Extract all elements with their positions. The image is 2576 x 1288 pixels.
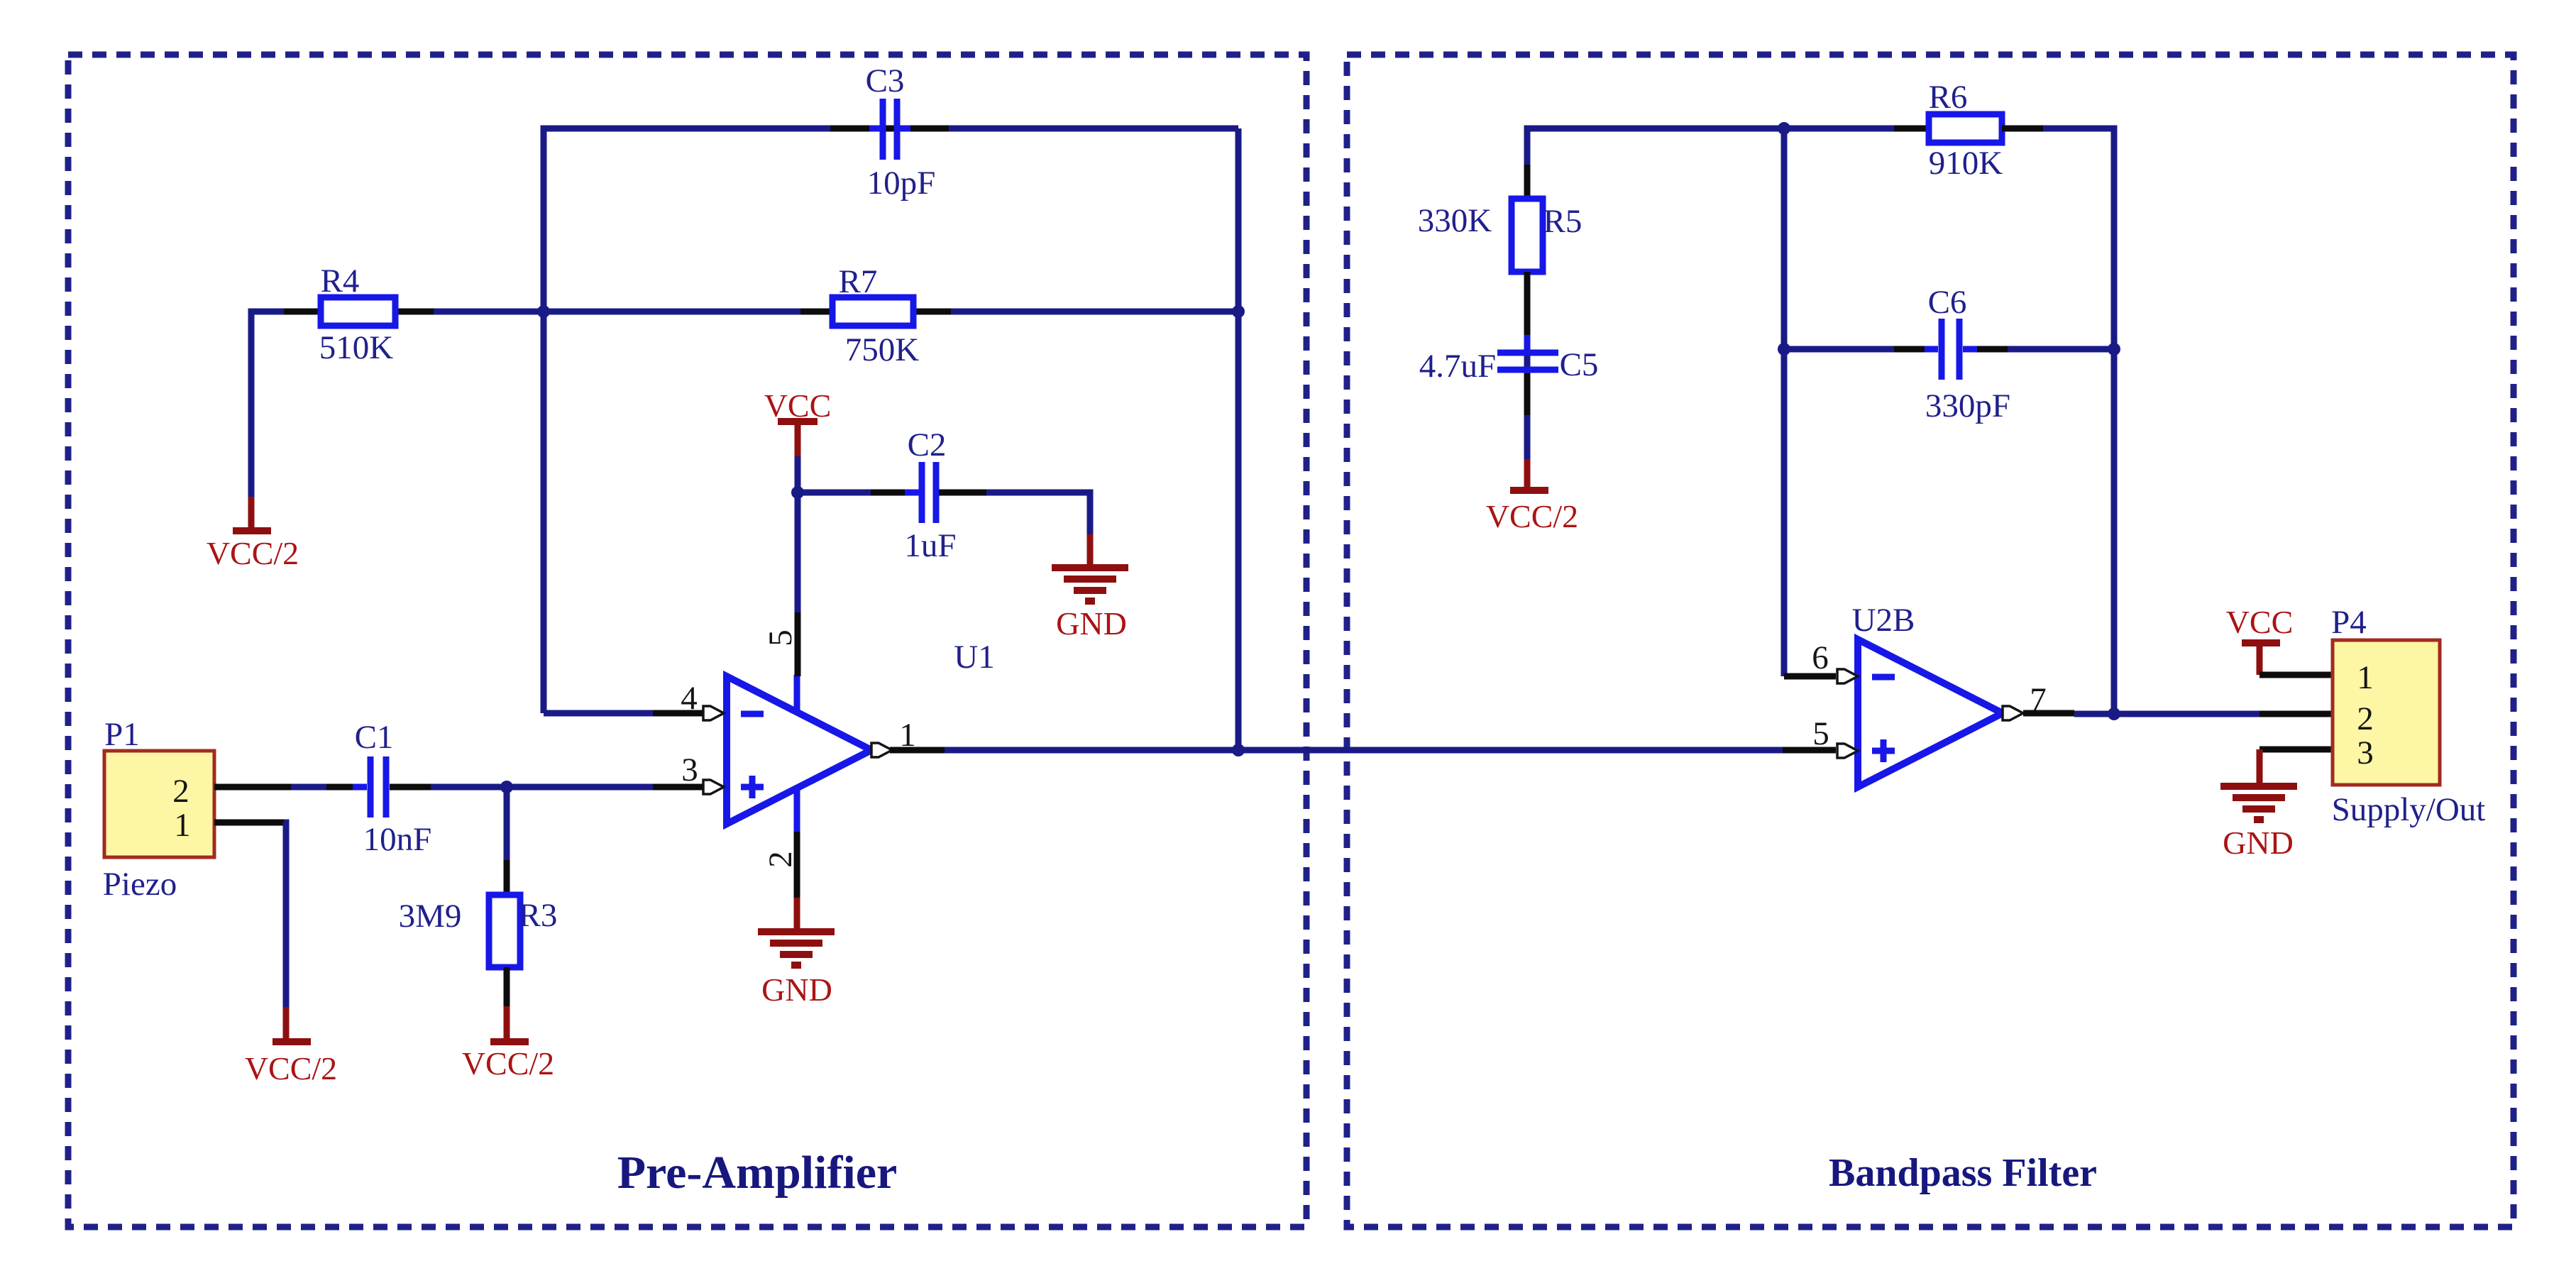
svg-text:1uF: 1uF <box>904 527 956 564</box>
svg-text:P1: P1 <box>104 716 140 753</box>
svg-text:510K: 510K <box>319 329 394 366</box>
svg-text:C3: C3 <box>866 62 905 99</box>
svg-text:VCC/2: VCC/2 <box>1486 498 1578 534</box>
power symbol VCC at U1 <box>764 387 832 456</box>
resistor R5 <box>1512 199 1543 272</box>
svg-text:4.7uF: 4.7uF <box>1419 348 1496 385</box>
pin arrow U2B pin 5 <box>1837 744 1858 758</box>
junction dot at R7 right / C3 <box>1232 305 1245 318</box>
junction dot at U2B output <box>2108 708 2120 720</box>
pin arrow U2B output pin 7 <box>2003 706 2023 720</box>
svg-text:C1: C1 <box>355 719 394 756</box>
svg-text:VCC/2: VCC/2 <box>462 1045 554 1081</box>
svg-text:1: 1 <box>2357 659 2374 696</box>
connector P4 <box>2333 640 2440 785</box>
svg-text:VCC/2: VCC/2 <box>207 535 299 571</box>
svg-text:5: 5 <box>762 629 799 646</box>
power symbol VCC/2 at C5 <box>1486 459 1578 534</box>
svg-text:VCC: VCC <box>764 387 832 424</box>
power symbol VCC/2 at R3 <box>462 1006 554 1081</box>
wire: C6 net <box>1784 346 2114 353</box>
svg-text:GND: GND <box>1056 605 1127 642</box>
svg-text:GND: GND <box>761 971 832 1008</box>
svg-text:C5: C5 <box>1560 346 1599 383</box>
svg-text:3M9: 3M9 <box>399 898 462 935</box>
pin arrow U1 pin 4 <box>703 706 724 720</box>
svg-text:2: 2 <box>762 851 799 868</box>
capacitor C3 <box>869 99 910 160</box>
wire: VCC to P4 pin 1 <box>2259 672 2333 678</box>
power symbol VCC/2 at R4 <box>207 497 299 571</box>
wire: U2B output to P4 pin 2 <box>2023 713 2333 714</box>
svg-text:Supply/Out: Supply/Out <box>2332 791 2486 828</box>
svg-text:U1: U1 <box>954 639 994 676</box>
Bandpass Filter section border <box>1347 55 2514 1227</box>
capacitor C1 <box>353 756 404 818</box>
capacitor C2 <box>905 462 953 523</box>
pin arrow U1 output pin 1 <box>871 743 892 757</box>
wire: VCC to U1 pin 5 <box>795 456 801 676</box>
svg-text:VCC/2: VCC/2 <box>245 1050 337 1086</box>
junction dot at C6 left <box>1778 343 1790 356</box>
ground symbol at C2 <box>1052 534 1128 642</box>
wire: R6 right to output vertical <box>2002 128 2114 714</box>
wire: R4 R7 feedback net <box>251 312 1238 531</box>
wire: R3 top <box>504 787 510 895</box>
svg-text:6: 6 <box>1812 639 1829 676</box>
resistor R6 <box>1929 114 2002 143</box>
svg-text:330pF: 330pF <box>1925 387 2010 424</box>
wire: P4 pin 3 to GND <box>2259 749 2333 784</box>
power symbol VCC/2 at P1 <box>245 1007 337 1086</box>
pin arrow U1 pin 3 <box>703 780 724 794</box>
junction dot at VCC / C2 <box>791 486 804 499</box>
junction dot at R5/R6/pin6 node <box>1778 122 1790 135</box>
svg-text:GND: GND <box>2223 825 2294 861</box>
junction dot at R4/R7 node <box>537 305 550 318</box>
resistor R4 <box>321 297 395 326</box>
junction dot at C6 right <box>2108 343 2120 356</box>
op-amp U2B <box>1858 639 2003 787</box>
svg-text:C6: C6 <box>1928 284 1967 321</box>
resistor R3 <box>489 895 520 967</box>
wire: U1 pin 2 to GND <box>794 832 800 898</box>
svg-text:Piezo: Piezo <box>103 866 177 903</box>
svg-text:R7: R7 <box>839 263 878 300</box>
svg-text:VCC: VCC <box>2226 604 2294 640</box>
capacitor C6 <box>1925 319 1977 380</box>
wire: R5 to C5 <box>1524 272 1531 349</box>
wire: R5 top to R6 <box>1527 128 1929 415</box>
wire: P1 pin 2 to C1 <box>214 784 367 791</box>
svg-text:10pF: 10pF <box>867 165 936 202</box>
wire: C2 left <box>798 490 919 496</box>
svg-text:10nF: 10nF <box>363 821 432 858</box>
wire: C5 to VCC/2 <box>1524 373 1531 459</box>
svg-text:Pre-Amplifier: Pre-Amplifier <box>617 1147 898 1199</box>
junction dot at R3 tap <box>500 781 513 793</box>
svg-text:R5: R5 <box>1543 203 1583 240</box>
wire: U1 inverting input (pin 4) <box>544 710 704 717</box>
connector P1 <box>104 751 214 857</box>
svg-text:750K: 750K <box>845 331 920 368</box>
svg-text:330K: 330K <box>1418 202 1492 239</box>
wire: C1 to U1 non-inverting input (pin 3) <box>390 784 704 791</box>
svg-text:Bandpass Filter: Bandpass Filter <box>1829 1151 2097 1195</box>
svg-text:5: 5 <box>1812 715 1829 752</box>
ground symbol at U1 <box>758 898 835 1008</box>
svg-text:P4: P4 <box>2331 604 2367 641</box>
svg-text:2: 2 <box>2357 700 2374 737</box>
svg-text:R3: R3 <box>519 897 558 934</box>
ground symbol at P4 <box>2220 786 2297 861</box>
wire: U1 output to U2B pin 5 <box>890 747 1836 754</box>
wire: P1 pin 1 to VCC/2 <box>214 822 286 1007</box>
junction dot at U1 output <box>1232 744 1245 756</box>
svg-text:3: 3 <box>681 752 698 788</box>
svg-text:4: 4 <box>681 680 698 717</box>
power symbol VCC at P4 <box>2226 604 2294 675</box>
svg-text:U2B: U2B <box>1852 602 1915 639</box>
svg-text:2: 2 <box>172 773 189 810</box>
svg-text:910K: 910K <box>1929 145 2003 182</box>
wire: right vertical of feedback loop <box>1235 128 1242 750</box>
svg-text:R6: R6 <box>1929 79 1968 116</box>
pin arrow U2B pin 6 <box>1837 669 1858 683</box>
resistor R7 <box>832 297 913 326</box>
svg-text:R4: R4 <box>321 263 360 299</box>
wire: U2B pin 6 vertical <box>1784 128 1836 676</box>
svg-text:1: 1 <box>174 807 191 844</box>
wire: C3 top net <box>544 128 1238 713</box>
wire: C2 right to GND <box>939 492 1090 534</box>
Pre-Amplifier section border <box>68 55 1306 1227</box>
svg-text:3: 3 <box>2357 734 2374 771</box>
capacitor C5 <box>1497 335 1558 387</box>
svg-text:C2: C2 <box>908 426 947 463</box>
op-amp U1 <box>727 675 871 832</box>
wire: R3 bottom <box>504 967 510 1006</box>
